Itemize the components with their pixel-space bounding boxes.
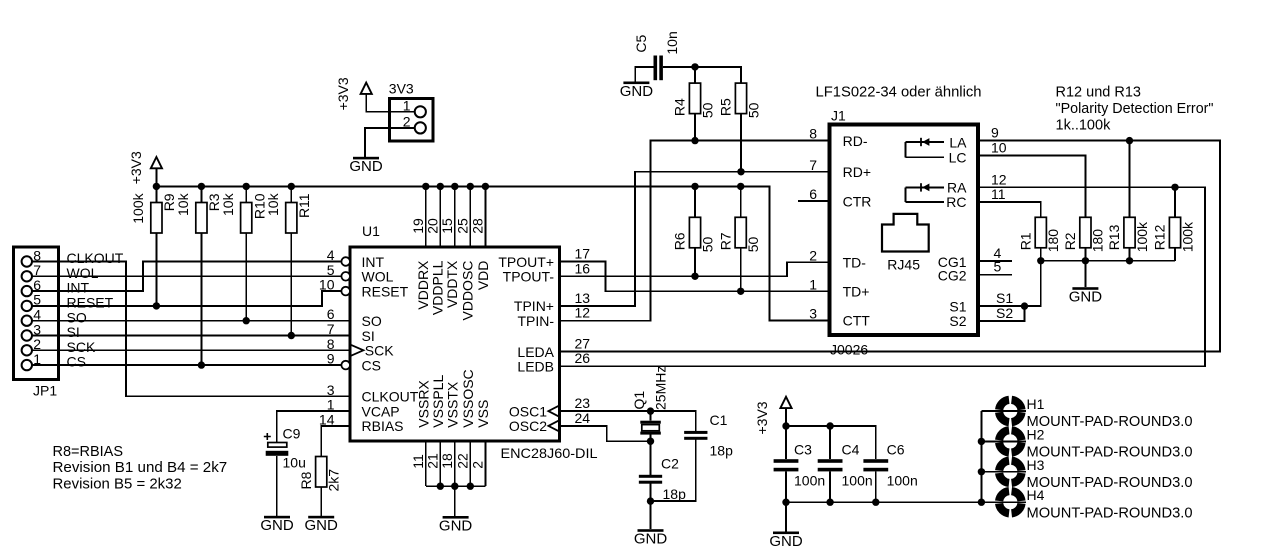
svg-text:18p: 18p — [710, 443, 734, 459]
svg-text:R6: R6 — [672, 232, 688, 250]
svg-text:23: 23 — [575, 395, 591, 411]
svg-text:9: 9 — [327, 351, 335, 367]
svg-text:1: 1 — [403, 98, 411, 114]
svg-text:C9: C9 — [283, 426, 301, 442]
svg-text:18: 18 — [439, 453, 455, 469]
svg-text:17: 17 — [575, 246, 591, 262]
svg-text:TD+: TD+ — [843, 284, 870, 300]
svg-text:VCAP: VCAP — [362, 403, 400, 419]
svg-text:RBIAS: RBIAS — [362, 418, 404, 434]
svg-text:C4: C4 — [842, 442, 860, 458]
svg-text:R5: R5 — [718, 98, 734, 116]
svg-text:100n: 100n — [887, 473, 918, 489]
svg-text:CS: CS — [67, 354, 86, 370]
svg-text:7: 7 — [33, 262, 41, 278]
svg-text:WOL: WOL — [67, 265, 99, 281]
svg-text:7: 7 — [327, 321, 335, 337]
svg-text:GND: GND — [260, 517, 294, 534]
svg-text:R8: R8 — [298, 471, 314, 489]
svg-text:RESET: RESET — [67, 295, 114, 311]
svg-text:R12: R12 — [1152, 224, 1168, 250]
svg-text:100k: 100k — [130, 192, 146, 223]
svg-text:24: 24 — [575, 410, 591, 426]
svg-text:180: 180 — [1090, 229, 1106, 253]
svg-text:1k..100k: 1k..100k — [1056, 118, 1112, 134]
svg-text:16: 16 — [575, 260, 591, 276]
svg-text:12: 12 — [991, 171, 1007, 187]
svg-text:GND: GND — [620, 83, 654, 100]
svg-text:180: 180 — [1045, 229, 1061, 253]
svg-text:4: 4 — [33, 307, 41, 323]
svg-text:CTR: CTR — [843, 193, 872, 209]
svg-text:SI: SI — [362, 328, 375, 344]
svg-text:GND: GND — [439, 517, 473, 534]
svg-text:10k: 10k — [265, 192, 281, 216]
svg-text:100k: 100k — [1134, 221, 1150, 252]
svg-text:1: 1 — [327, 397, 335, 413]
svg-text:9: 9 — [991, 125, 999, 141]
svg-text:H1: H1 — [1027, 396, 1045, 412]
svg-text:S1: S1 — [949, 298, 966, 314]
svg-text:10k: 10k — [220, 192, 236, 216]
svg-text:R12 und R13: R12 und R13 — [1056, 85, 1141, 101]
svg-text:MOUNT-PAD-ROUND3.0: MOUNT-PAD-ROUND3.0 — [1027, 445, 1193, 461]
svg-text:LF1S022-34 oder ähnlich: LF1S022-34 oder ähnlich — [816, 85, 982, 101]
svg-text:SCK: SCK — [67, 339, 96, 355]
svg-text:R8=RBIAS: R8=RBIAS — [53, 444, 124, 460]
svg-text:C2: C2 — [661, 456, 679, 472]
svg-text:10: 10 — [991, 139, 1007, 155]
svg-text:CLKOUT: CLKOUT — [67, 250, 124, 266]
svg-text:VSSTX: VSSTX — [444, 381, 460, 428]
svg-text:+3V3: +3V3 — [128, 151, 144, 184]
svg-text:LC: LC — [949, 150, 967, 166]
svg-text:MOUNT-PAD-ROUND3.0: MOUNT-PAD-ROUND3.0 — [1027, 505, 1193, 521]
svg-text:3: 3 — [809, 305, 817, 321]
svg-text:INT: INT — [362, 254, 385, 270]
svg-text:3: 3 — [327, 382, 335, 398]
svg-text:10: 10 — [319, 277, 335, 293]
svg-text:INT: INT — [67, 280, 90, 296]
svg-text:C3: C3 — [794, 442, 812, 458]
svg-text:8: 8 — [33, 247, 41, 263]
svg-text:50: 50 — [745, 102, 761, 118]
svg-text:VDDOSC: VDDOSC — [460, 261, 476, 321]
svg-text:100k: 100k — [1179, 221, 1195, 252]
svg-text:CG2: CG2 — [938, 268, 967, 284]
svg-text:5: 5 — [327, 262, 335, 278]
svg-text:10n: 10n — [664, 31, 680, 54]
svg-text:SI: SI — [67, 324, 80, 340]
svg-text:6: 6 — [33, 277, 41, 293]
svg-text:R13: R13 — [1106, 224, 1122, 250]
svg-text:C1: C1 — [710, 412, 728, 428]
svg-text:H4: H4 — [1027, 487, 1045, 503]
svg-text:15: 15 — [439, 218, 455, 234]
svg-text:5: 5 — [33, 292, 41, 308]
svg-text:100n: 100n — [842, 473, 873, 489]
svg-text:VDDTX: VDDTX — [444, 260, 460, 308]
svg-text:LEDA: LEDA — [517, 344, 554, 360]
svg-text:GND: GND — [634, 531, 668, 548]
svg-text:J0026: J0026 — [830, 342, 868, 358]
svg-text:MOUNT-PAD-ROUND3.0: MOUNT-PAD-ROUND3.0 — [1027, 414, 1193, 430]
svg-text:3V3: 3V3 — [389, 81, 414, 97]
svg-text:2: 2 — [33, 336, 41, 352]
svg-text:TD-: TD- — [843, 255, 867, 271]
svg-text:12: 12 — [575, 305, 591, 321]
svg-text:JP1: JP1 — [33, 383, 57, 399]
svg-text:VSSOSC: VSSOSC — [460, 369, 476, 427]
svg-text:27: 27 — [575, 336, 591, 352]
svg-text:RJ45: RJ45 — [887, 257, 920, 273]
svg-text:CTT: CTT — [843, 313, 871, 329]
svg-text:+3V3: +3V3 — [754, 401, 770, 434]
svg-text:GND: GND — [1069, 289, 1103, 306]
svg-text:R1: R1 — [1018, 232, 1034, 250]
svg-text:CS: CS — [362, 357, 381, 373]
svg-text:1: 1 — [809, 276, 817, 292]
svg-text:Q1: Q1 — [631, 391, 647, 410]
svg-text:OSC1: OSC1 — [509, 403, 547, 419]
svg-text:C5: C5 — [633, 34, 649, 52]
svg-text:RESET: RESET — [362, 283, 409, 299]
svg-text:4: 4 — [327, 247, 335, 263]
svg-text:50: 50 — [699, 237, 715, 253]
svg-text:8: 8 — [327, 336, 335, 352]
svg-text:TPOUT-: TPOUT- — [503, 269, 555, 285]
svg-text:1: 1 — [33, 351, 41, 367]
svg-text:C6: C6 — [887, 442, 905, 458]
svg-text:R4: R4 — [672, 98, 688, 116]
svg-text:ENC28J60-DIL: ENC28J60-DIL — [501, 445, 598, 461]
svg-text:Revision B5 = 2k32: Revision B5 = 2k32 — [53, 477, 182, 493]
svg-text:S2: S2 — [949, 313, 966, 329]
svg-text:GND: GND — [305, 517, 339, 534]
svg-text:25MHz: 25MHz — [652, 366, 668, 410]
svg-text:8: 8 — [809, 126, 817, 142]
svg-text:2k7: 2k7 — [326, 469, 342, 492]
svg-text:LEDB: LEDB — [517, 359, 554, 375]
svg-text:CLKOUT: CLKOUT — [362, 389, 419, 405]
svg-text:S1: S1 — [996, 290, 1013, 306]
svg-text:28: 28 — [469, 218, 485, 234]
svg-text:RD+: RD+ — [843, 164, 871, 180]
svg-text:RD-: RD- — [843, 133, 868, 149]
svg-text:3: 3 — [33, 321, 41, 337]
svg-text:7: 7 — [809, 157, 817, 173]
svg-text:+3V3: +3V3 — [335, 77, 351, 110]
svg-text:TPOUT+: TPOUT+ — [498, 254, 554, 270]
svg-text:OSC2: OSC2 — [509, 418, 547, 434]
svg-text:25: 25 — [454, 218, 470, 234]
svg-text:10u: 10u — [283, 455, 306, 471]
svg-text:LA: LA — [949, 134, 967, 150]
svg-text:R11: R11 — [296, 193, 312, 218]
svg-text:H2: H2 — [1027, 426, 1045, 442]
svg-text:R7: R7 — [717, 232, 733, 250]
svg-text:RC: RC — [946, 194, 966, 210]
svg-text:SO: SO — [362, 313, 382, 329]
svg-text:22: 22 — [455, 453, 471, 469]
svg-text:2: 2 — [403, 114, 411, 130]
svg-text:TPIN-: TPIN- — [517, 313, 554, 329]
svg-text:26: 26 — [575, 350, 591, 366]
svg-text:TPIN+: TPIN+ — [514, 298, 554, 314]
svg-text:U1: U1 — [362, 223, 380, 239]
svg-text:SCK: SCK — [365, 343, 394, 359]
svg-text:GND: GND — [349, 158, 383, 175]
svg-text:J1: J1 — [831, 108, 846, 124]
svg-text:2: 2 — [809, 247, 817, 263]
svg-text:13: 13 — [575, 290, 591, 306]
svg-text:H3: H3 — [1027, 457, 1045, 473]
svg-text:18p: 18p — [663, 486, 687, 502]
svg-text:R2: R2 — [1062, 232, 1078, 250]
svg-text:GND: GND — [769, 533, 803, 550]
svg-text:SO: SO — [67, 309, 87, 325]
svg-text:VDD: VDD — [475, 261, 491, 291]
svg-text:14: 14 — [319, 411, 335, 427]
svg-text:WOL: WOL — [362, 269, 394, 285]
svg-text:6: 6 — [327, 306, 335, 322]
svg-text:6: 6 — [809, 186, 817, 202]
svg-text:2: 2 — [470, 461, 486, 469]
svg-text:"Polarity Detection Error": "Polarity Detection Error" — [1056, 101, 1214, 117]
svg-text:Revision B1 und B4 = 2k7: Revision B1 und B4 = 2k7 — [53, 460, 228, 476]
svg-text:11: 11 — [991, 186, 1006, 202]
svg-text:VSS: VSS — [475, 400, 491, 428]
svg-text:MOUNT-PAD-ROUND3.0: MOUNT-PAD-ROUND3.0 — [1027, 475, 1193, 491]
svg-text:50: 50 — [745, 237, 761, 253]
svg-text:50: 50 — [699, 102, 715, 118]
svg-text:S2: S2 — [996, 305, 1013, 321]
svg-text:10k: 10k — [175, 192, 191, 216]
svg-text:100n: 100n — [794, 473, 825, 489]
